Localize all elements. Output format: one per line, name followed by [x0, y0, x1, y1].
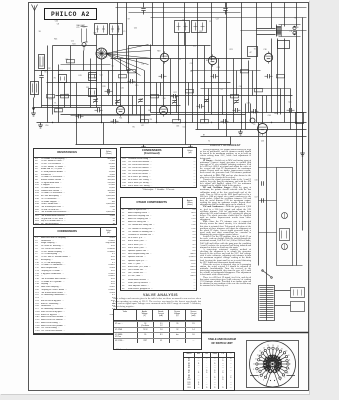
right column circuit alignment text — [200, 149, 251, 332]
svg-text:S1: S1 — [254, 49, 256, 51]
wire vertical 51 — [280, 89, 282, 115]
HT rail top — [116, 7, 307, 9]
svg-text:R4: R4 — [150, 119, 152, 121]
IFT1 can — [95, 24, 108, 35]
svg-text:7: 7 — [258, 377, 259, 379]
svg-text:R13: R13 — [206, 60, 209, 62]
coil L3 box — [59, 75, 67, 83]
wire vertical 23 — [204, 46, 206, 123]
mains switch S15 — [262, 270, 273, 279]
svg-text:R24: R24 — [72, 44, 75, 46]
svg-text:15: 15 — [267, 345, 269, 347]
wire speaker 2 — [257, 34, 276, 36]
wire vertical 38 — [83, 51, 85, 71]
wire vertical 27 — [233, 59, 235, 123]
dial lamp LP1 — [81, 27, 88, 51]
table RESISTANCES — [33, 148, 117, 225]
svg-text:C23: C23 — [86, 87, 89, 89]
svg-text:S3: S3 — [140, 98, 142, 100]
resistor R3 — [61, 95, 69, 98]
capacitor C39 — [141, 3, 145, 15]
separator heavy line — [201, 332, 309, 334]
table valve analysis — [113, 309, 202, 350]
wire vertical 19 — [178, 33, 180, 121]
svg-text:T1: T1 — [54, 103, 56, 105]
svg-text:L6: L6 — [190, 71, 192, 73]
bus vertical a — [76, 123, 78, 145]
paragraph valve analysis intro — [113, 298, 201, 308]
svg-text:R10: R10 — [85, 42, 88, 44]
svg-text:R21: R21 — [230, 49, 233, 51]
resistor R4 — [47, 95, 55, 98]
svg-text:C29: C29 — [217, 67, 220, 69]
svg-text:R20: R20 — [274, 113, 277, 115]
footnote both anodes — [116, 349, 176, 351]
wire vertical 17 — [163, 62, 165, 106]
wire vertical 9 — [101, 59, 103, 123]
capacitor C57 — [255, 197, 264, 203]
speaker LS — [276, 25, 301, 49]
svg-text:C50: C50 — [45, 125, 48, 127]
wire vertical 8 — [96, 35, 98, 108]
wire vertical 3 — [58, 65, 60, 123]
tuning gang C2 — [96, 48, 107, 59]
svg-text:C26: C26 — [182, 20, 185, 22]
bus vertical d — [230, 137, 232, 145]
capacitor C24 — [251, 109, 259, 113]
svg-text:L16: L16 — [141, 63, 144, 65]
resistor R22 — [277, 75, 285, 78]
wire terminal line left — [34, 107, 101, 109]
svg-text:12: 12 — [257, 354, 259, 356]
wire vertical drop 9 — [241, 3, 243, 96]
wire vertical 45 — [188, 83, 190, 106]
svg-text:R12: R12 — [193, 46, 196, 48]
svg-text:C11: C11 — [289, 31, 292, 33]
component labels — [39, 18, 299, 143]
svg-text:R7: R7 — [203, 135, 205, 137]
resistor R14 — [67, 60, 75, 63]
wire mid h8 — [151, 112, 307, 114]
wire vertical 46 — [208, 89, 210, 113]
svg-text:6: 6 — [263, 379, 264, 381]
electrolytic C52 — [250, 118, 255, 123]
svg-text:C8: C8 — [57, 23, 59, 25]
coil L4 box — [89, 73, 97, 81]
capacitor C40 — [223, 3, 227, 15]
wire vertical 40 — [116, 83, 118, 106]
svg-text:16: 16 — [272, 345, 274, 347]
svg-text:C47: C47 — [83, 27, 86, 29]
wire mains 2 — [275, 305, 291, 307]
wire vertical 26 — [226, 83, 228, 137]
resistor R18 — [201, 120, 209, 123]
svg-text:C51: C51 — [183, 126, 186, 128]
wire vertical 15 — [150, 45, 152, 113]
capacitor C28 — [197, 104, 205, 108]
switch spokes — [250, 345, 295, 382]
bus vertical e — [245, 104, 247, 130]
wire vertical 29 — [248, 61, 250, 113]
wire top rail 2 — [151, 17, 307, 19]
wire strip h1 — [259, 167, 277, 169]
capacitor C35 — [171, 94, 179, 98]
svg-text:R1: R1 — [54, 78, 56, 80]
wire vertical drop 7 — [211, 3, 213, 61]
wire aerial branch — [35, 70, 48, 72]
IFT3 can — [175, 21, 190, 33]
svg-text:4: 4 — [284, 377, 285, 379]
trimmer CT5 — [204, 98, 209, 103]
svg-text:C56: C56 — [255, 180, 258, 182]
wire speaker 1 — [257, 28, 276, 30]
electrolytic C54 — [282, 213, 288, 219]
svg-text:R19: R19 — [103, 86, 106, 88]
wire vertical 41 — [132, 96, 134, 115]
svg-text:PHILCO A2: PHILCO A2 — [51, 11, 90, 18]
resistor R10 — [128, 70, 136, 73]
svg-text:C19: C19 — [40, 66, 43, 68]
table CONDENSERS — [33, 227, 117, 335]
svg-text:19: 19 — [286, 351, 288, 353]
svg-text:C48: C48 — [65, 59, 68, 61]
switch locator wedge — [266, 368, 279, 387]
output transformer T1 — [277, 25, 282, 37]
bus line B3 — [196, 129, 307, 131]
IFT2 can — [110, 24, 123, 35]
svg-text:R2: R2 — [48, 68, 50, 70]
wire mid h10 — [191, 70, 261, 72]
svg-text:47: 47 — [250, 52, 252, 54]
resistor R8 — [141, 120, 149, 123]
resistor R12 — [151, 95, 159, 98]
svg-text:R23: R23 — [49, 98, 52, 100]
svg-text:S9: S9 — [39, 31, 41, 33]
wire vertical drop 3 — [152, 3, 154, 46]
wire vertical drop 6 — [197, 3, 199, 59]
heading VALVE ANALYSIS — [120, 293, 201, 297]
footnote electrolytic — [120, 189, 197, 191]
ground G4 — [188, 145, 193, 151]
capacitor C12 — [111, 119, 119, 123]
svg-text:C36: C36 — [176, 125, 179, 127]
svg-text:11: 11 — [255, 359, 257, 361]
bus line B5 — [76, 144, 231, 146]
valve V5 — [116, 104, 124, 116]
wire mains 1 — [275, 290, 291, 292]
wire vertical drop 11 — [271, 3, 273, 29]
wire vertical drop 5 — [184, 3, 186, 46]
svg-text:C21: C21 — [76, 27, 79, 29]
valve V1 — [160, 51, 168, 63]
capacitor C26 — [287, 108, 295, 112]
svg-text:R18: R18 — [157, 51, 160, 53]
svg-text:C27: C27 — [216, 19, 219, 21]
smoothing block — [277, 168, 293, 266]
trimmer CT1 — [93, 98, 98, 103]
wire vertical 18 — [170, 59, 172, 115]
trimmer CT4 — [172, 99, 177, 104]
wire vertical 20 — [185, 33, 187, 123]
wire mid h5 — [47, 82, 231, 84]
resistor R17 — [231, 95, 239, 98]
svg-text:21: 21 — [289, 360, 291, 362]
svg-text:S7: S7 — [128, 18, 130, 20]
gang drive fan — [106, 45, 153, 76]
svg-text:C41: C41 — [148, 110, 151, 112]
wire vertical 50 — [266, 96, 268, 113]
capacitor C10 — [105, 89, 113, 93]
wire vertical 30 — [256, 49, 258, 123]
wire vertical drop 4 — [163, 3, 165, 58]
svg-text:C43: C43 — [78, 75, 81, 77]
wire strip v1 — [258, 123, 260, 266]
wire vertical 36 — [296, 31, 298, 137]
svg-text:C6: C6 — [111, 66, 113, 68]
svg-text:C3: C3 — [209, 21, 211, 23]
svg-text:L18: L18 — [66, 94, 69, 96]
svg-text:R5: R5 — [133, 126, 135, 128]
wire vertical 48 — [236, 71, 238, 96]
svg-text:C46: C46 — [93, 33, 96, 35]
wire vertical drop 13 — [296, 3, 298, 27]
wire vertical 39 — [108, 71, 110, 96]
wire vertical 10 — [112, 35, 114, 106]
svg-text:C1: C1 — [123, 31, 125, 33]
aerial coil L2 — [39, 55, 45, 69]
wire vertical 35 — [290, 89, 292, 130]
capacitor C16 — [159, 74, 167, 78]
ground arrow left — [31, 98, 36, 117]
capacitor C14 — [128, 79, 136, 83]
svg-text:C44: C44 — [55, 20, 58, 22]
heading TABLE AND DIAGRAM OF SWITCH UNIT — [196, 338, 248, 345]
resistor R6 — [119, 75, 127, 78]
wire strip v5 — [266, 301, 268, 321]
wire mid h1 — [53, 45, 97, 47]
ground G2 — [38, 123, 43, 129]
wire vertical 11 — [120, 59, 122, 106]
svg-text:C49: C49 — [54, 111, 57, 113]
wire vertical 34 — [284, 39, 286, 123]
resistor R11 — [255, 89, 263, 92]
title box PHILCO A2 — [45, 9, 97, 20]
svg-text:13: 13 — [259, 351, 261, 353]
capacitor C56 — [255, 180, 264, 186]
svg-text:L12: L12 — [141, 125, 144, 127]
valve V3 — [264, 51, 272, 63]
svg-text:2: 2 — [289, 368, 290, 370]
wire vertical drop 2 — [126, 3, 128, 71]
table switch unit — [183, 352, 235, 391]
wire mid h3 — [111, 58, 251, 60]
wire mid h11 — [201, 88, 291, 90]
wave trap L1 — [31, 82, 39, 95]
svg-text:C57: C57 — [255, 197, 258, 199]
svg-text:10: 10 — [253, 364, 255, 366]
capacitor C1 — [39, 71, 43, 108]
table CONDENSERS continued — [120, 147, 197, 188]
wire vertical 25 — [218, 59, 220, 130]
wire vertical 6 — [76, 83, 78, 123]
svg-text:C45: C45 — [239, 86, 242, 88]
wire vertical 21 — [192, 59, 194, 123]
svg-text:R15: R15 — [135, 85, 138, 87]
wire vertical 47 — [222, 96, 224, 115]
wire vertical 37 — [302, 18, 304, 123]
trimmer CT6 — [234, 99, 239, 104]
resistor R9 — [173, 120, 181, 123]
ground G3 — [141, 145, 146, 151]
svg-text:C52: C52 — [134, 28, 137, 30]
svg-text:R9: R9 — [294, 18, 296, 20]
svg-text:C31: C31 — [121, 88, 124, 90]
wire vertical drop 12 — [284, 3, 286, 27]
valve V2 — [208, 54, 216, 66]
trimmer CT2 — [115, 99, 120, 104]
svg-text:R17: R17 — [174, 92, 177, 94]
wire strip h4 — [293, 265, 303, 267]
svg-text:C18: C18 — [263, 49, 266, 51]
junction dots — [52, 122, 297, 123]
mains transformer T2 — [259, 286, 275, 321]
bus vertical b — [103, 123, 105, 145]
svg-text:20: 20 — [288, 355, 290, 357]
svg-text:C5: C5 — [179, 59, 181, 61]
svg-text:C25: C25 — [288, 101, 291, 103]
switch wafer circle — [250, 341, 296, 387]
wire aerial downlead — [34, 23, 36, 98]
wire vertical 32 — [271, 39, 273, 113]
wire top rail 4 — [129, 12, 241, 14]
bus vertical c — [185, 123, 187, 145]
wire vertical drop 10 — [256, 3, 258, 49]
capacitor C20 — [211, 74, 219, 78]
switch contact ring — [264, 355, 282, 373]
svg-text:C34: C34 — [268, 115, 271, 117]
svg-text:C2: C2 — [253, 124, 255, 126]
valve V4 output — [258, 122, 268, 136]
wire mid h4 — [42, 70, 131, 72]
capacitor C7 — [76, 114, 84, 118]
wire vertical 5 — [70, 46, 72, 108]
wire vertical 2 — [52, 46, 54, 115]
svg-text:C33: C33 — [247, 102, 250, 104]
electrolytic C55 — [282, 244, 288, 250]
IFT4 can — [192, 21, 207, 33]
ground strip — [300, 123, 305, 157]
capacitor C22 — [233, 108, 241, 112]
wire vertical 31 — [262, 96, 264, 123]
svg-text:3: 3 — [287, 373, 288, 375]
wire mid h6 — [56, 95, 293, 97]
svg-text:14: 14 — [263, 348, 265, 350]
svg-text:L15: L15 — [105, 57, 108, 59]
svg-text:L2: L2 — [268, 52, 270, 54]
component box right edge — [296, 113, 304, 124]
svg-text:9: 9 — [253, 369, 254, 371]
wire vertical 13 — [136, 59, 138, 115]
wire vertical 43 — [160, 83, 162, 96]
resistor R15 — [186, 90, 194, 93]
bus vertical f — [250, 104, 252, 123]
wire vertical 16 — [156, 83, 158, 123]
svg-text:C16: C16 — [190, 63, 193, 65]
bus line B4 — [201, 136, 307, 138]
resistor R5 — [89, 75, 97, 78]
wire mid h7 — [42, 105, 181, 107]
capacitor C32 — [221, 119, 229, 123]
wire mid h12 — [71, 115, 151, 117]
choke L19 — [280, 229, 290, 241]
svg-text:R11: R11 — [119, 118, 122, 120]
svg-text:T2: T2 — [208, 141, 210, 143]
label DIAL LAMP — [77, 24, 85, 27]
svg-text:R16: R16 — [54, 38, 57, 40]
svg-text:L10: L10 — [163, 98, 166, 100]
svg-text:17: 17 — [277, 346, 279, 348]
trimmer CT3 — [138, 98, 143, 103]
capacitor C30 — [265, 74, 273, 78]
capacitor C4 — [95, 108, 103, 112]
wire vertical 7 — [90, 59, 92, 108]
svg-text:R22: R22 — [199, 31, 202, 33]
valve V6 — [159, 104, 167, 116]
wire vertical 24 — [211, 65, 213, 115]
svg-text:L14: L14 — [60, 70, 63, 72]
wire vertical 22 — [197, 59, 199, 130]
wire top rail 3 — [241, 30, 307, 32]
wire vertical 49 — [252, 71, 254, 96]
switch diagram box — [247, 341, 299, 388]
wire strip v2 — [266, 130, 268, 301]
wire mid h2 — [129, 45, 211, 47]
bus line B1 — [61, 114, 246, 116]
wire vertical 42 — [140, 106, 142, 123]
wire strip v3 — [296, 137, 298, 266]
coil L5 box — [89, 89, 97, 97]
wire strip h3 — [259, 232, 277, 234]
wire vertical drop 8 — [226, 3, 228, 83]
ground G5 — [238, 130, 243, 136]
wire vertical drop 1 — [117, 3, 119, 59]
svg-text:C53: C53 — [261, 141, 264, 143]
resistor R2 — [55, 109, 63, 112]
wire vertical 14 — [144, 71, 146, 123]
table OTHER COMPONENTS — [120, 197, 197, 291]
wire vertical 44 — [176, 96, 178, 113]
wire vertical 12 — [128, 46, 130, 123]
svg-text:L4: L4 — [221, 89, 223, 91]
wire strip h2 — [259, 200, 277, 202]
svg-text:C12: C12 — [71, 41, 74, 43]
wire vertical 4 — [64, 83, 66, 108]
wire vertical 28 — [241, 96, 243, 130]
wire mid h9 — [61, 64, 111, 66]
svg-text:C15: C15 — [100, 75, 103, 77]
resistor block R30 — [248, 47, 258, 57]
bus line B2 — [37, 122, 307, 124]
svg-text:L8: L8 — [259, 134, 261, 136]
wire vertical 33 — [277, 39, 279, 115]
svg-text:S5: S5 — [44, 72, 46, 74]
mains connector — [291, 288, 305, 312]
svg-text:8: 8 — [257, 372, 258, 374]
wire vertical 1 — [47, 46, 49, 123]
svg-text:5: 5 — [280, 380, 281, 382]
svg-text:18: 18 — [281, 349, 283, 351]
svg-text:C38: C38 — [295, 27, 298, 29]
